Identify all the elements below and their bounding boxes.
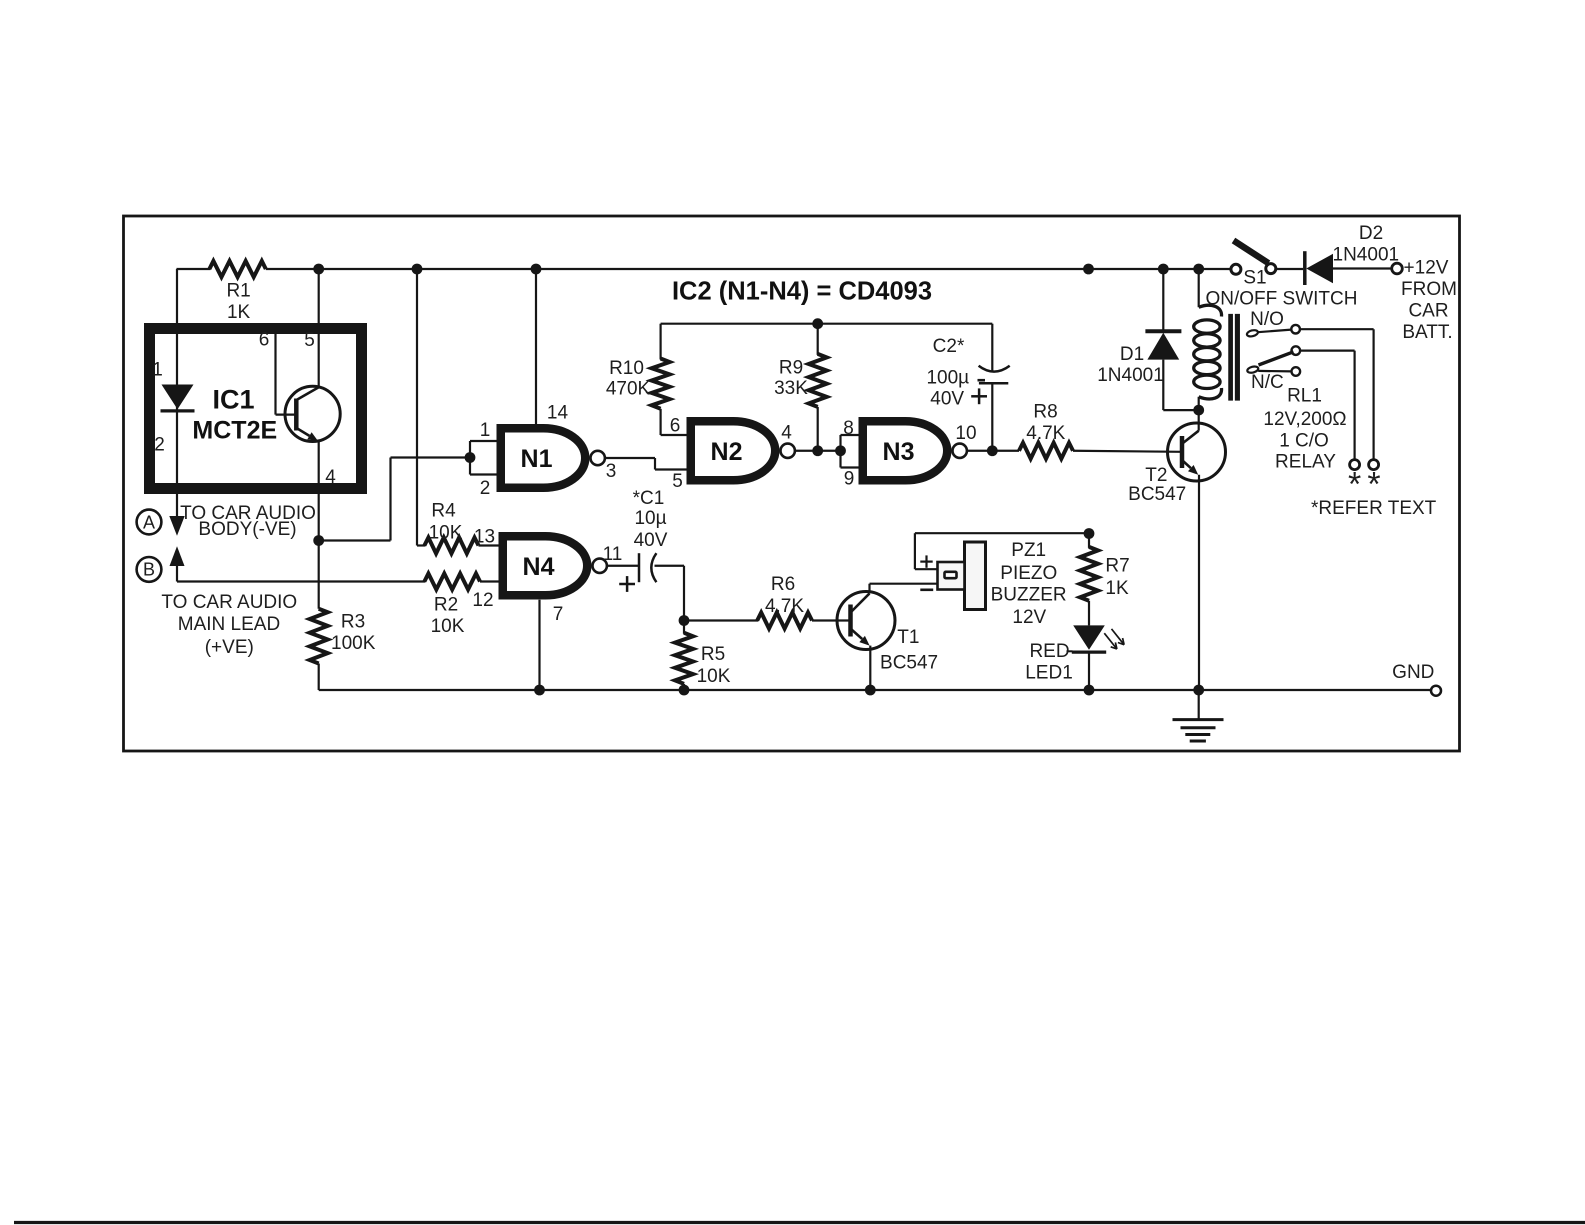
svg-text:D1: D1 bbox=[1120, 344, 1144, 365]
svg-text:9: 9 bbox=[844, 469, 855, 490]
svg-text:BATT.: BATT. bbox=[1402, 322, 1452, 343]
svg-text:13: 13 bbox=[474, 527, 495, 548]
svg-text:1N4001: 1N4001 bbox=[1333, 244, 1400, 265]
svg-text:T2: T2 bbox=[1145, 465, 1167, 486]
svg-text:1N4001: 1N4001 bbox=[1097, 365, 1164, 386]
svg-text:10K: 10K bbox=[697, 666, 731, 687]
svg-text:(+VE): (+VE) bbox=[205, 637, 254, 658]
svg-text:40V: 40V bbox=[634, 530, 668, 551]
svg-text:LED1: LED1 bbox=[1025, 663, 1073, 684]
svg-text:N1: N1 bbox=[521, 445, 553, 473]
svg-text:10K: 10K bbox=[429, 523, 463, 544]
svg-text:R8: R8 bbox=[1033, 402, 1057, 423]
svg-text:CAR: CAR bbox=[1408, 301, 1448, 322]
svg-text:MAIN LEAD: MAIN LEAD bbox=[178, 614, 280, 635]
svg-text:40V: 40V bbox=[930, 388, 964, 409]
svg-text:MCT2E: MCT2E bbox=[192, 417, 277, 445]
svg-text:12V: 12V bbox=[1012, 607, 1046, 628]
svg-text:C2*: C2* bbox=[933, 336, 965, 357]
svg-text:12: 12 bbox=[472, 590, 493, 611]
svg-text:4: 4 bbox=[781, 423, 792, 444]
svg-text:4.7K: 4.7K bbox=[1026, 423, 1065, 444]
svg-text:3: 3 bbox=[606, 461, 617, 482]
svg-text:BUZZER: BUZZER bbox=[991, 585, 1067, 606]
svg-text:1 C/O: 1 C/O bbox=[1279, 431, 1329, 452]
svg-text:R1: R1 bbox=[226, 281, 250, 302]
svg-text:33K: 33K bbox=[774, 378, 808, 399]
svg-text:ON/OFF SWITCH: ON/OFF SWITCH bbox=[1206, 289, 1358, 310]
svg-text:T1: T1 bbox=[897, 627, 919, 648]
svg-text:N4: N4 bbox=[523, 553, 555, 581]
svg-text:RED: RED bbox=[1029, 641, 1069, 662]
svg-text:1K: 1K bbox=[227, 302, 251, 323]
svg-text:1: 1 bbox=[480, 420, 491, 441]
svg-text:12V,200Ω: 12V,200Ω bbox=[1263, 409, 1346, 430]
svg-text:6: 6 bbox=[259, 330, 270, 351]
svg-text:GND: GND bbox=[1392, 662, 1434, 683]
svg-text:B: B bbox=[143, 560, 155, 580]
svg-text:4: 4 bbox=[325, 467, 336, 488]
svg-text:+12V: +12V bbox=[1404, 258, 1449, 279]
svg-text:N2: N2 bbox=[711, 438, 743, 466]
svg-text:100K: 100K bbox=[331, 633, 376, 654]
svg-text:*REFER TEXT: *REFER TEXT bbox=[1311, 498, 1437, 519]
svg-text:10K: 10K bbox=[431, 616, 465, 637]
svg-text:R4: R4 bbox=[431, 501, 456, 522]
svg-text:R6: R6 bbox=[771, 574, 795, 595]
svg-text:5: 5 bbox=[304, 330, 315, 351]
svg-text:IC1: IC1 bbox=[212, 385, 254, 415]
svg-text:PZ1: PZ1 bbox=[1011, 540, 1046, 561]
svg-text:6: 6 bbox=[670, 416, 681, 437]
svg-text:8: 8 bbox=[843, 418, 854, 439]
svg-text:D2: D2 bbox=[1359, 223, 1383, 244]
svg-text:14: 14 bbox=[547, 403, 569, 424]
svg-text:A: A bbox=[143, 512, 155, 532]
svg-text:BC547: BC547 bbox=[1128, 484, 1186, 505]
svg-text:RELAY: RELAY bbox=[1275, 452, 1336, 473]
svg-text:R5: R5 bbox=[701, 644, 725, 665]
svg-text:IC2 (N1-N4) = CD4093: IC2 (N1-N4) = CD4093 bbox=[672, 278, 932, 306]
svg-text:R9: R9 bbox=[779, 358, 803, 379]
svg-text:TO CAR AUDIO: TO CAR AUDIO bbox=[161, 592, 297, 613]
svg-text:470K: 470K bbox=[606, 379, 651, 400]
svg-text:4.7K: 4.7K bbox=[765, 596, 804, 617]
svg-text:N3: N3 bbox=[883, 438, 915, 466]
svg-text:1: 1 bbox=[152, 360, 163, 381]
svg-text:R2: R2 bbox=[434, 595, 458, 616]
svg-text:FROM: FROM bbox=[1401, 279, 1457, 300]
svg-text:N/C: N/C bbox=[1251, 372, 1284, 393]
svg-text:2: 2 bbox=[480, 478, 491, 499]
svg-text:2: 2 bbox=[154, 435, 165, 456]
svg-text:7: 7 bbox=[553, 604, 564, 625]
svg-text:5: 5 bbox=[672, 471, 683, 492]
svg-text:10µ: 10µ bbox=[634, 508, 666, 529]
svg-text:1K: 1K bbox=[1105, 578, 1129, 599]
svg-text:RL1: RL1 bbox=[1287, 386, 1322, 407]
svg-text:11: 11 bbox=[603, 544, 623, 565]
svg-text:BODY(-VE): BODY(-VE) bbox=[198, 519, 296, 540]
svg-text:R3: R3 bbox=[341, 612, 365, 633]
svg-text:R10: R10 bbox=[609, 358, 644, 379]
svg-text:R7: R7 bbox=[1105, 556, 1129, 577]
svg-text:100µ: 100µ bbox=[926, 368, 969, 389]
svg-text:10: 10 bbox=[955, 423, 976, 444]
svg-text:*C1: *C1 bbox=[633, 488, 665, 509]
svg-text:N/O: N/O bbox=[1250, 309, 1284, 330]
svg-text:S1: S1 bbox=[1243, 268, 1266, 289]
svg-text:PIEZO: PIEZO bbox=[1000, 563, 1057, 584]
svg-text:BC547: BC547 bbox=[880, 653, 938, 674]
